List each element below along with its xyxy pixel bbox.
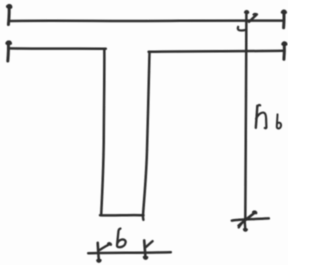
star terminator: lower tail xyxy=(243,221,246,230)
b dim left terminator: vertical stroke xyxy=(98,243,99,261)
star terminator: slash xyxy=(239,212,256,225)
label b (bottom dimension) xyxy=(117,229,126,248)
web bottom edge xyxy=(100,214,144,217)
star terminator: lower-left fork xyxy=(239,223,242,227)
b dim left terminator: blob at slash tip xyxy=(108,243,110,244)
hook at slash tip xyxy=(253,13,256,16)
small hook left of h_b line below top line xyxy=(238,27,246,31)
left end tick of second line xyxy=(6,42,10,61)
star terminator: blob at tail bottom xyxy=(244,228,246,232)
blob at top of h_b line xyxy=(246,10,248,14)
star terminator: blob at slash tip xyxy=(253,212,256,213)
b dim right terminator: slash xyxy=(146,241,153,247)
flange top edge (top horizontal line) xyxy=(9,19,283,22)
b dim right terminator: vertical stroke xyxy=(144,240,145,258)
blob at top of left tick xyxy=(8,6,11,7)
blob at top of right tick 2 xyxy=(283,43,286,44)
star terminator: horizontal stroke xyxy=(232,218,269,220)
web right side (vertical) xyxy=(143,52,150,220)
right end tick of top line xyxy=(282,11,285,28)
blob at top of right tick xyxy=(283,11,286,12)
b dim left terminator: blob bottom xyxy=(98,260,101,261)
blob at top of left tick 2 xyxy=(7,42,10,43)
right end tick of second line xyxy=(282,43,285,60)
b dimension line (bottom) xyxy=(88,252,171,253)
label h (script) xyxy=(258,105,261,106)
flange bottom edge, left part xyxy=(9,47,106,50)
left end tick of top line xyxy=(7,6,11,25)
flange bottom edge, right part xyxy=(149,51,284,52)
b dim left terminator: slash xyxy=(100,244,110,250)
label h subscript b xyxy=(277,114,281,128)
b dim right terminator: blob bottom xyxy=(144,257,147,258)
h_b vertical dimension line xyxy=(245,12,246,220)
dimension slash at top of h_b line xyxy=(249,14,257,21)
web left side (vertical) xyxy=(101,49,104,215)
